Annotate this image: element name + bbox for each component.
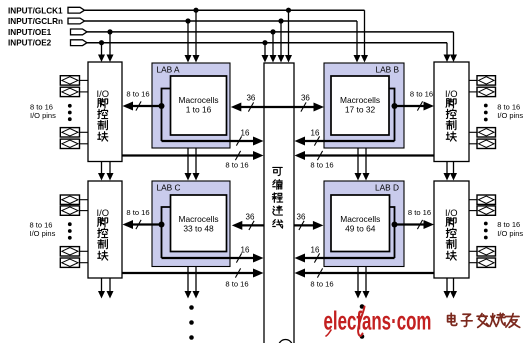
wire drop GCLRn to bar [280,21,282,56]
wire IO top-left to IO bottom-left [101,162,103,174]
wire drop GLCK1 to bar [288,10,290,55]
svg-text:36: 36 [246,94,255,103]
svg-text:8 to 16: 8 to 16 [225,279,248,288]
wire pin to IO block [80,262,89,264]
I/O pin cell [60,247,79,256]
bus 36 interconnect to LAB C [240,224,264,226]
bus 8 to 16 IO top-right to interconnect [303,154,435,156]
svg-text:8 to 16: 8 to 16 [410,89,433,98]
pins ellipsis [68,222,72,239]
wire macrocell hook LAB A [162,89,171,142]
ellipsis below LAB C [189,305,194,340]
bus LAB D to IO 8 to 16 [395,223,426,225]
svg-text:8 to 16: 8 to 16 [126,208,149,217]
watermark e accent [326,330,331,336]
svg-text:8 to 16: 8 to 16 [310,160,333,169]
svg-text:8 to 16: 8 to 16 [126,89,149,98]
wire drop OE1 to right IO [453,32,455,55]
svg-text:INPUT/GCLRn: INPUT/GCLRn [8,17,63,26]
junction OE2/IOcol [99,40,104,45]
bus 8 to 16 IO bottom-left to interconnect [122,272,256,274]
svg-text:8 to 16: 8 to 16 [310,279,333,288]
label 8 to 16 I/O pins [30,221,56,239]
svg-text:Macrocells: Macrocells [178,95,218,105]
I/O pin cell [477,206,496,215]
LAB block LAB C [152,181,230,267]
I/O pin cell [477,258,496,267]
I/O pin cell [477,76,496,85]
LAB block LAB D [324,181,404,267]
svg-text:elecfans·com: elecfans·com [324,306,432,336]
wire drop OE1 to bar [272,32,274,56]
wire OE1 horizontal [87,31,454,33]
svg-text:LAB B: LAB B [375,65,399,75]
I/O pin cell [477,139,496,148]
svg-text:33 to 48: 33 to 48 [183,224,214,234]
wire drop OE1 to left IO [109,32,111,55]
I/O pin cell [477,128,496,137]
wire pin to IO block [469,262,477,264]
wire drop GCLRn to LAB B [356,21,358,56]
label 8 to 16 I/O pins [497,220,523,238]
wire GLCK1 horizontal [85,9,365,11]
I/O pin cell [60,139,79,148]
wire below IO bottom-right [446,278,448,292]
wire pin to IO block [469,250,477,252]
programmable interconnect bar [264,63,294,343]
wire below LAB D [357,267,359,292]
I/O pin cell [60,206,79,215]
svg-text:Macrocells: Macrocells [178,214,218,224]
junction GLCK1/bar [286,8,291,13]
svg-text:I/O: I/O [97,207,110,218]
bus LAB B to IO 8 to 16 [395,105,426,107]
input pad OE2 [71,40,88,46]
wire pin to IO block [469,131,477,133]
macrocells box of LAB B [331,76,389,135]
I/O pin cell [60,128,79,137]
wire macrocell hook LAB D [390,207,395,258]
junction OE1/bar [270,29,275,34]
IO control block bottom-right [434,181,469,278]
wire pin to IO block [469,199,477,201]
input pad OE1 [71,29,88,35]
wire LAB A to LAB C left [187,148,189,174]
wire below IO bottom-left [101,278,103,292]
svg-text:16: 16 [241,246,250,255]
pins ellipsis [484,222,488,240]
svg-text:I/O: I/O [445,88,458,99]
bus 8 to 16 IO bottom-right to interconnect [303,272,435,274]
svg-text:LAB A: LAB A [157,65,181,75]
wire pin to IO block [469,79,477,81]
label 8 to 16 I/O pins [30,103,56,120]
svg-text:INPUT/OE2: INPUT/OE2 [8,39,52,48]
svg-text:I/O pins: I/O pins [497,229,523,238]
interconnect continuation circle [279,340,293,343]
svg-text:Macrocells: Macrocells [340,214,380,224]
svg-text:I/O pins: I/O pins [30,229,56,238]
wire LAB A to LAB C right [195,148,197,174]
LAB block LAB B [324,63,404,148]
macrocells box of LAB D [331,195,390,252]
svg-text:49 to 64: 49 to 64 [345,224,376,234]
ellipsis below LAB D [360,304,365,339]
wire drop OE2 to right IO [446,43,448,55]
I/O pin cell [60,76,79,85]
macrocells box of LAB A [171,76,227,135]
wire LAB B to LAB D left [357,148,359,174]
I/O pin cell [60,87,79,96]
I/O pin cell [477,247,496,256]
svg-text:LAB C: LAB C [157,183,181,193]
bus 36 LAB A - interconnect - LAB B [239,106,316,108]
svg-text:INPUT/GLCK1: INPUT/GLCK1 [8,6,63,15]
pins ellipsis [68,104,72,121]
svg-text:I/O pins: I/O pins [30,111,56,120]
wire drop GLCK1 to LAB B [364,10,366,55]
svg-text:LAB D: LAB D [375,183,399,193]
junction OE2/bar [262,40,267,45]
junction LAB A feedback [159,103,165,109]
svg-text:16: 16 [241,129,250,138]
macrocells box of LAB C [171,195,227,252]
junction GCLRn/LABcol [185,18,190,23]
IO control block top-left [88,62,122,162]
junction LAB D feedback [392,222,398,228]
svg-text:36: 36 [301,94,310,103]
wire LAB B to LAB D right [365,148,367,174]
wire drop GCLRn to LAB A [187,21,189,56]
svg-text:INPUT/OE1: INPUT/OE1 [8,28,52,37]
bus LAB A to IO 8 to 16 [131,105,162,107]
junction GLCK1/LABcol [193,8,198,13]
pins ellipsis [484,104,488,122]
wire pin to IO block [80,250,89,252]
IO control block bottom-left [88,181,122,278]
input pad GCLRn [68,18,85,24]
wire pin to IO block [80,210,89,212]
bus 16 LAB C to interconnect [162,257,256,259]
svg-text:8 to 16: 8 to 16 [225,160,248,169]
svg-text:36: 36 [246,213,255,222]
wire OE2 horizontal [87,42,447,44]
svg-text:16: 16 [311,129,320,138]
svg-text:I/O: I/O [97,88,110,99]
I/O pin cell [477,195,496,204]
wire pin to IO block [469,210,477,212]
wire GCLRn horizontal [85,20,358,22]
watermark background [318,310,529,334]
svg-text:1 to 16: 1 to 16 [186,105,212,115]
wire drop OE2 to bar [264,43,266,56]
bus 16 LAB B to interconnect [303,140,395,142]
junction GCLRn/bar [278,18,283,23]
junction OE1/IOcol [107,29,112,34]
svg-text:I/O pins: I/O pins [497,111,523,120]
junction LAB C feedback [159,222,165,228]
wire macrocell hook LAB B [389,89,395,142]
bus 16 LAB A to interconnect [162,140,256,142]
junction LAB B feedback [392,103,398,109]
watermark f swash [358,307,364,336]
input pad GLCK1 [68,7,85,13]
label 8 to 16 I/O pins [497,103,523,120]
svg-text:I/O: I/O [445,207,458,218]
bus 8 to 16 IO top-left to interconnect [122,154,256,156]
bus 16 LAB D to interconnect [303,257,395,259]
wire below LAB C [187,267,189,292]
wire pin to IO block [80,91,89,93]
wire pin to IO block [469,91,477,93]
wire pin to IO block [80,199,89,201]
LAB block LAB A [152,63,230,148]
I/O pin cell [60,258,79,267]
wire pin to IO block [80,131,89,133]
svg-text:Macrocells: Macrocells [340,95,380,105]
I/O pin cell [60,195,79,204]
bus 36 interconnect to LAB D [294,224,315,226]
wire IO top-right to IO bottom-right [446,162,448,174]
wire macrocell hook LAB C [162,207,171,258]
bus LAB C to IO 8 to 16 [131,223,162,225]
wire pin to IO block [80,79,89,81]
wire pin to IO block [469,143,477,145]
interconnect vertical label 可编程连线 [272,167,282,228]
wire pin to IO block [80,143,89,145]
I/O pin cell [477,87,496,96]
watermark 电子发烧友 [448,313,520,327]
svg-text:17 to 32: 17 to 32 [345,105,376,115]
wire drop GLCK1 to LAB A [195,10,197,55]
IO control block top-right [434,62,469,162]
svg-text:8 to 16: 8 to 16 [408,208,431,217]
svg-text:36: 36 [297,213,306,222]
svg-text:16: 16 [311,246,320,255]
wire drop OE2 to left IO [101,43,103,55]
